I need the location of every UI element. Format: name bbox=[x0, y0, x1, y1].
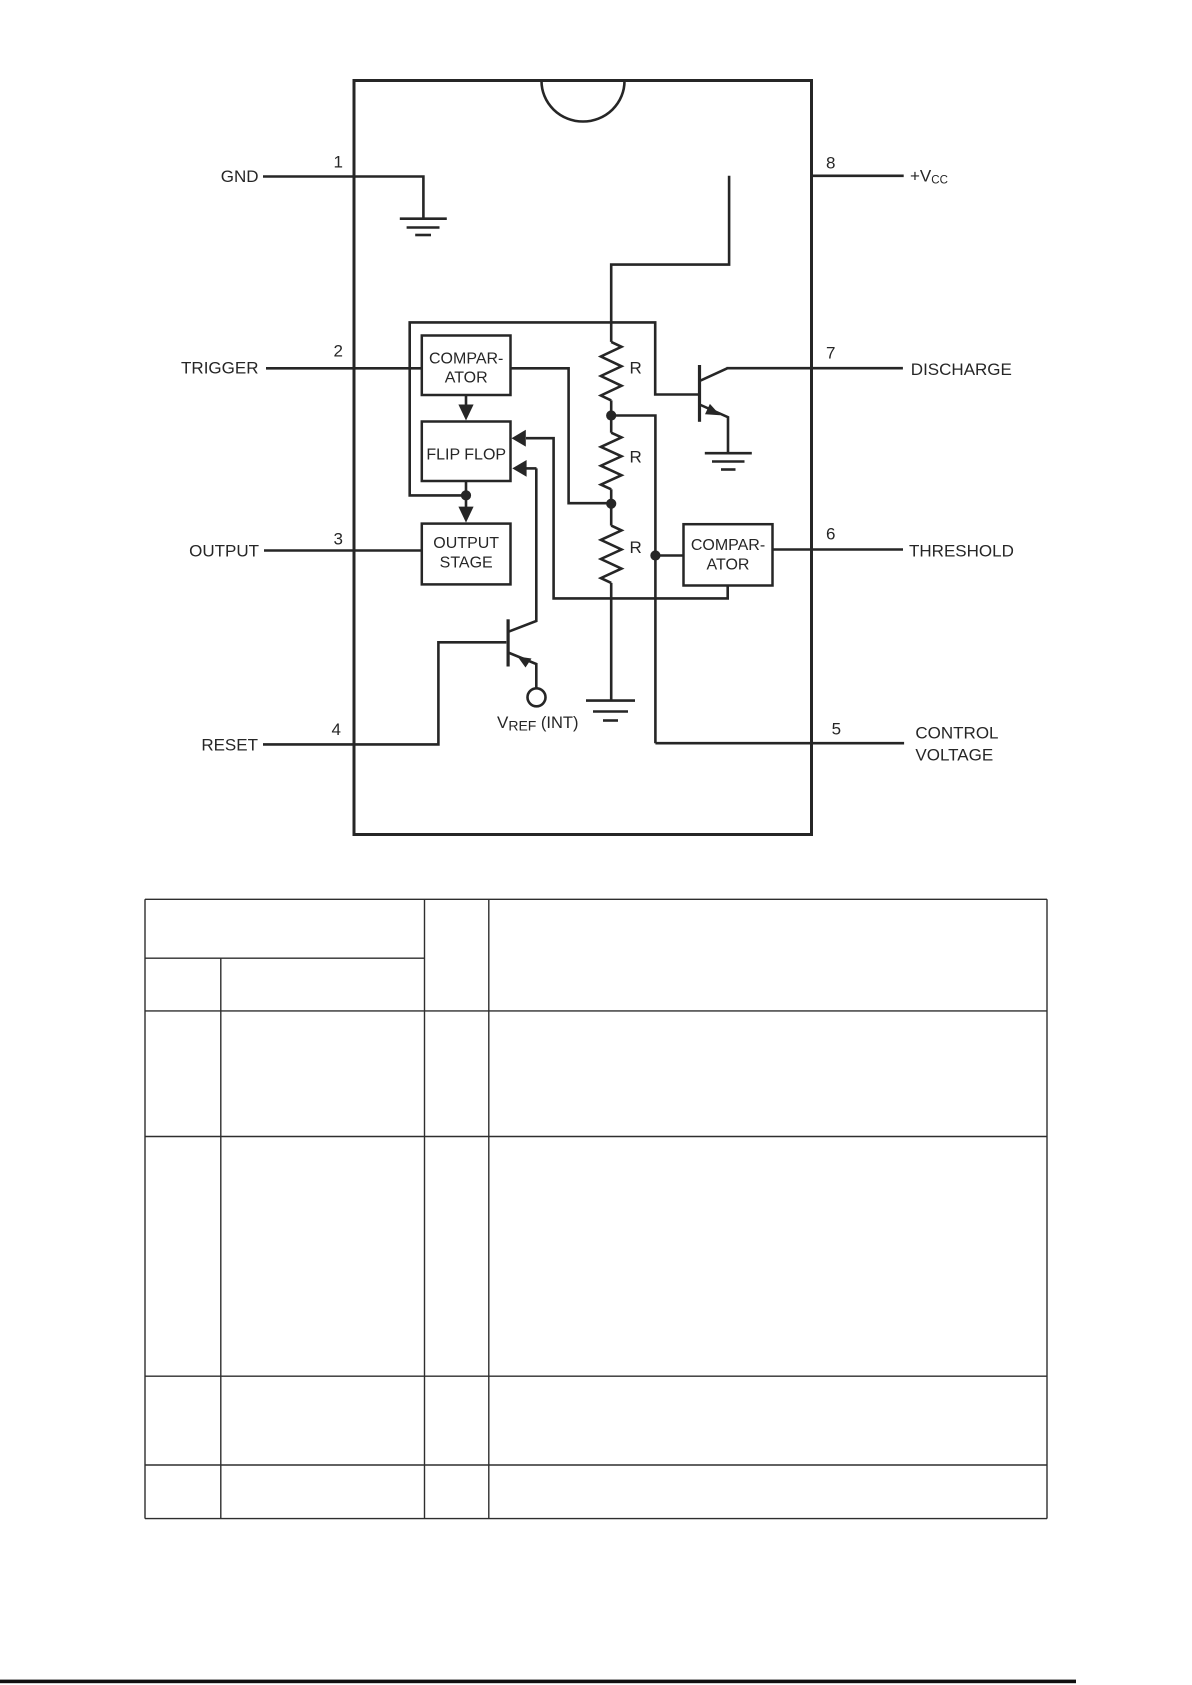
pin 2 wire (TRIGGER) bbox=[266, 367, 422, 370]
svg-text:ATOR: ATOR bbox=[445, 370, 488, 387]
pin 6 wire (THRESHOLD) bbox=[773, 548, 904, 551]
arrow U1 to flip flop bbox=[458, 395, 473, 421]
wire node J3 to comparator U2 bbox=[655, 554, 683, 557]
table header sub-divider bbox=[145, 957, 425, 959]
pin 5 wire (CONTROL VOLTAGE) bbox=[655, 742, 904, 745]
wire flip flop output to node A bbox=[465, 481, 468, 495]
IC notch bbox=[542, 81, 625, 122]
wire R3 to ground bbox=[610, 583, 613, 701]
flip flop U3 bbox=[422, 422, 511, 482]
svg-text:4: 4 bbox=[332, 720, 341, 739]
table column divider (sub column) bbox=[220, 958, 222, 1518]
svg-text:STAGE: STAGE bbox=[440, 555, 493, 572]
svg-text:2: 2 bbox=[334, 342, 343, 361]
svg-text:FLIP FLOP: FLIP FLOP bbox=[426, 447, 506, 464]
transistor Q2 emitter to Vref bbox=[508, 653, 536, 689]
wire flip flop output routing to Q1 base bbox=[410, 322, 699, 495]
svg-text:5: 5 bbox=[832, 720, 841, 739]
arrowhead into flip flop (upper input) bbox=[512, 430, 526, 447]
comparator U2 (threshold comparator) bbox=[684, 524, 773, 585]
table column divider 3 bbox=[488, 899, 490, 1518]
pin 1 wire (GND) bbox=[263, 177, 423, 219]
svg-text:VREF (INT): VREF (INT) bbox=[497, 713, 579, 734]
wire node J1 to control-voltage rail bbox=[611, 416, 655, 744]
svg-text:7: 7 bbox=[826, 344, 835, 363]
transistor Q1 collector bbox=[700, 368, 728, 381]
arrow node A to output stage bbox=[458, 495, 473, 522]
pin 7 wire (DISCHARGE) bbox=[727, 367, 903, 370]
transistor Q1 emitter bbox=[700, 405, 729, 453]
svg-text:COMPAR-: COMPAR- bbox=[429, 351, 503, 368]
node J2 (R2/R3 junction) bbox=[606, 499, 616, 509]
wire R2 to node J2 bbox=[610, 489, 613, 525]
svg-text:OUTPUT: OUTPUT bbox=[189, 542, 259, 561]
svg-text:OUTPUT: OUTPUT bbox=[433, 535, 499, 552]
node J3 (control voltage tap) bbox=[650, 550, 660, 560]
wire R1 to node J1 bbox=[610, 400, 613, 432]
comparator U1 (trigger comparator) bbox=[422, 336, 511, 396]
transistor Q2 (reset, PNP) base bar bbox=[507, 619, 510, 666]
svg-text:R: R bbox=[630, 359, 642, 378]
IC package outline U555 bbox=[354, 81, 812, 835]
svg-text:R: R bbox=[630, 448, 642, 467]
ground symbol at pin 1 bbox=[400, 219, 447, 235]
node A (flip flop output junction) bbox=[461, 490, 471, 500]
ground symbol at Q1 emitter bbox=[705, 453, 752, 469]
Vref terminal circle bbox=[528, 688, 546, 706]
svg-text:R: R bbox=[630, 538, 642, 557]
table row dividers bbox=[145, 1011, 1047, 1465]
resistor R2 bbox=[601, 433, 622, 490]
svg-text:ATOR: ATOR bbox=[707, 557, 750, 574]
table outer border bbox=[145, 899, 1047, 1518]
svg-text:TRIGGER: TRIGGER bbox=[181, 359, 258, 378]
transistor Q1 (discharge) base bar bbox=[698, 365, 701, 422]
resistor R1 bbox=[601, 342, 622, 401]
svg-text:1: 1 bbox=[334, 153, 343, 172]
output stage U4 bbox=[422, 524, 511, 585]
wire U2 output to flip flop set input bbox=[526, 438, 728, 598]
svg-text:THRESHOLD: THRESHOLD bbox=[909, 542, 1014, 561]
svg-text:8: 8 bbox=[826, 154, 835, 173]
pin 3 wire (OUTPUT) bbox=[264, 549, 422, 552]
svg-text:VOLTAGE: VOLTAGE bbox=[915, 746, 993, 765]
wire Q2 collector to flip flop reset input bbox=[509, 468, 537, 631]
wire Vcc rail to resistor chain bbox=[611, 176, 729, 342]
footer bar bbox=[0, 1680, 1076, 1684]
ground symbol at divider bottom bbox=[586, 701, 635, 721]
svg-text:6: 6 bbox=[826, 525, 835, 544]
wire arrow stem (lower input) bbox=[527, 467, 537, 470]
pin 8 wire (+Vcc) bbox=[812, 175, 904, 178]
resistor R3 bbox=[601, 526, 622, 583]
svg-text:CONTROL: CONTROL bbox=[915, 724, 998, 743]
arrowhead into flip flop (lower input) bbox=[512, 460, 526, 477]
svg-text:+VCC: +VCC bbox=[910, 167, 948, 187]
table column divider 2 bbox=[424, 899, 426, 1518]
transistor Q1 emitter arrowhead bbox=[705, 404, 720, 415]
svg-text:RESET: RESET bbox=[201, 736, 258, 755]
svg-text:DISCHARGE: DISCHARGE bbox=[911, 360, 1012, 379]
svg-text:GND: GND bbox=[221, 167, 259, 186]
node J1 (R1/R2 junction) bbox=[606, 410, 616, 420]
svg-text:3: 3 bbox=[334, 530, 343, 549]
svg-text:COMPAR-: COMPAR- bbox=[691, 537, 765, 554]
wire U1 output to node J2 bbox=[511, 368, 612, 503]
transistor Q2 emitter arrowhead bbox=[518, 657, 532, 668]
pin 4 wire (RESET) to Q2 base bbox=[263, 642, 506, 744]
